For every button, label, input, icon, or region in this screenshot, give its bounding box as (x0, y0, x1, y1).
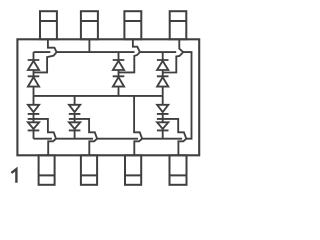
wire: pin 8 to chain C1 midpoint with hop over top bus (34, 39, 57, 72)
diode D1 of chain C1 (pointing up) (28, 60, 40, 70)
diode D2 of chain C1 (pointing up) (28, 76, 40, 86)
diode D2 of chain C5 (pointing up) (157, 76, 169, 86)
wire: chain C6 midpoint bar out to pin 4 with hop over bottom bus (157, 119, 186, 155)
chain C3 connecting wire (mid-left, middle bus to bottom bus) (74, 96, 76, 139)
pin 3 (bottom) (125, 155, 141, 185)
pin 7 (top) (81, 11, 98, 39)
diode D1 of chain C4 (pointing up) (113, 60, 125, 70)
diode D2 of chain C6 (pointing down) (157, 122, 169, 130)
diode D1 of chain C3 (pointing down) (69, 105, 81, 114)
diode D2 of chain C4 (pointing up) (113, 76, 125, 86)
wire: chain C3 midpoint bar out to pin 2 with hop over bottom bus (69, 119, 97, 155)
pin 5 (top, rightmost) (170, 11, 187, 39)
chain C5 connecting wire (right, top bus to middle bus) (162, 52, 164, 96)
wire: middle bus rail (34, 95, 163, 97)
chain C1 connecting wire (left, top bus to middle bus) (33, 52, 35, 96)
pin 4 (bottom, rightmost) (170, 155, 187, 185)
chain C6 connecting wire (right, middle bus to bottom bus) (162, 96, 164, 139)
diode D1 of chain C5 (pointing up) (157, 60, 169, 70)
wire: bottom bus rail with hop gaps (34, 138, 183, 140)
pin 1 (bottom, leftmost) (39, 155, 55, 185)
pin 2 (bottom) (81, 155, 97, 185)
wire: chain C2 midpoint bar out to pin 1 with hop over bottom bus (28, 119, 56, 155)
diode D2 of chain C2 (pointing down) (28, 122, 40, 130)
chain C4 connecting wire (center, top bus to middle bus) (118, 52, 120, 96)
pin 8 (top, leftmost) (40, 11, 57, 39)
wire: pin 6 to chain C4 midpoint with hop over top bus (119, 39, 140, 72)
pin 1 index label "1" (11, 169, 16, 183)
diode D1 of chain C2 (pointing down) (28, 105, 40, 114)
diode D2 of chain C3 (pointing down) (69, 122, 81, 130)
pin 6 (top) (124, 11, 141, 39)
wire: pin 5 to chain C5 midpoint with hop over top bus (163, 39, 184, 72)
diode D1 of chain C6 (pointing down) (157, 105, 169, 114)
wire: top bus rail with hop gaps, right end drops to bottom rail (34, 52, 192, 139)
IC package body outline (17, 39, 199, 155)
wire: pin 7 stub to top bus (88, 39, 90, 52)
chain C2 connecting wire (left, middle bus to bottom bus) (33, 96, 35, 139)
wire: middle bus down to pin 3 with hop over bottom bus (134, 96, 142, 155)
